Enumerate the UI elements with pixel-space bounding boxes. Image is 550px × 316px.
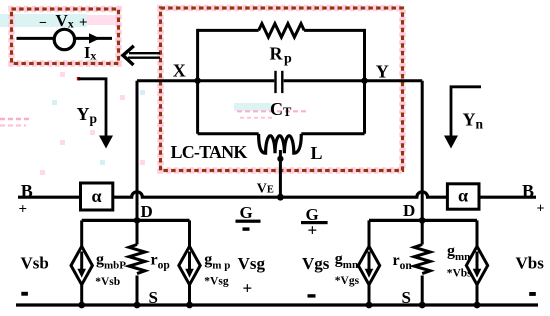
svg-text:LC-TANK: LC-TANK: [171, 142, 248, 162]
svg-text:D: D: [403, 201, 415, 220]
svg-text:+: +: [79, 15, 88, 31]
svg-text:Y: Y: [376, 62, 389, 82]
svg-text:Vsb: Vsb: [21, 253, 49, 272]
svg-text:*Vbs: *Vbs: [447, 267, 472, 279]
svg-text:G: G: [240, 203, 253, 222]
svg-text:B: B: [21, 181, 33, 201]
svg-text:α: α: [458, 186, 468, 206]
svg-text:+: +: [537, 202, 545, 217]
svg-text:*Vgs: *Vgs: [335, 275, 360, 287]
svg-text:X: X: [173, 61, 186, 81]
svg-text:B: B: [522, 181, 534, 201]
svg-text:L: L: [311, 143, 323, 163]
svg-text:*Vsb: *Vsb: [95, 276, 120, 288]
svg-text:*Vsg: *Vsg: [204, 276, 229, 288]
svg-text:α: α: [92, 186, 102, 206]
svg-text:+: +: [308, 221, 318, 240]
svg-text:+: +: [243, 279, 253, 298]
svg-text:Vgs: Vgs: [302, 254, 330, 273]
svg-text:−: −: [39, 16, 47, 31]
svg-text:+: +: [19, 202, 28, 218]
svg-text:D: D: [141, 202, 153, 221]
svg-text:Vbs: Vbs: [516, 253, 545, 272]
svg-text:VE: VE: [257, 182, 274, 197]
svg-text:Vsg: Vsg: [238, 254, 266, 273]
